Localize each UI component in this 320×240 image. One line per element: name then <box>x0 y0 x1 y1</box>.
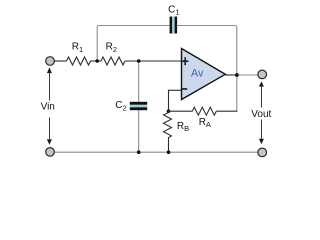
node: inverting input junction <box>167 109 171 113</box>
terminal: Vin top <box>46 57 55 66</box>
terminal: Vin bottom <box>46 148 55 157</box>
wire: right feedback vertical down to output node and RA <box>235 26 237 112</box>
node: C2 tap on main line <box>137 59 141 63</box>
svg-text:Av: Av <box>191 67 204 79</box>
wire: input lead from Vin terminal to R1 <box>55 60 67 62</box>
node: RB bottom junction <box>167 150 171 154</box>
wire: op-amp output lead <box>225 74 238 76</box>
svg-text:Vin: Vin <box>41 102 55 113</box>
resistor R1 <box>67 57 91 65</box>
op-amp Av <box>182 49 226 100</box>
Vin measurement arrow <box>47 67 52 144</box>
Vout measurement arrow <box>259 81 264 144</box>
wire: lead to RA <box>168 110 192 112</box>
node: output junction <box>235 73 239 77</box>
node: C2 bottom junction <box>137 150 141 154</box>
resistor RA <box>192 107 216 115</box>
wire: between R1 and R2 <box>91 60 102 62</box>
resistor RB <box>164 111 172 152</box>
wire: feedback riser from R1/R2 node up to C1 line <box>97 26 99 62</box>
wire: top feedback horizontal (right of C1) <box>177 25 235 27</box>
wire: C2 branch from main line down to bottom rail <box>138 61 140 152</box>
wire: bottom ground rail <box>55 151 258 153</box>
wire: top feedback horizontal (left of C1) <box>99 25 170 27</box>
svg-text:Vout: Vout <box>251 109 271 120</box>
node: junction R1/R2/feedback <box>95 59 99 63</box>
wire: output node to Vout terminal <box>237 74 258 76</box>
terminal: Vout top <box>258 70 267 79</box>
capacitor C1 <box>170 17 178 34</box>
capacitor C2 <box>130 102 147 110</box>
resistor R2 <box>101 57 125 65</box>
terminal: Vout bottom <box>258 148 267 157</box>
wire: R2 to op-amp non-inverting input <box>125 60 182 62</box>
wire: RA to output riser <box>216 110 237 112</box>
wire: inverting input branch <box>169 90 182 111</box>
